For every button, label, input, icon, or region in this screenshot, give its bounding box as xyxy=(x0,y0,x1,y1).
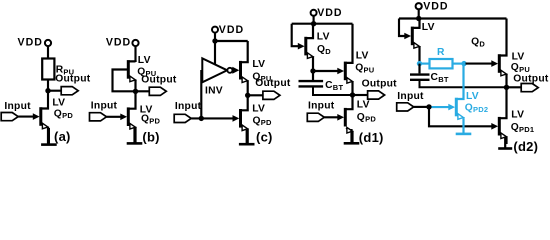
transistor QPD (b) xyxy=(120,91,135,143)
VDD terminal (a) xyxy=(45,40,51,46)
transistor QPD (a) xyxy=(33,107,48,143)
svg-text:(c): (c) xyxy=(256,130,273,145)
svg-text:Input: Input xyxy=(91,100,118,111)
svg-text:VDD: VDD xyxy=(18,37,43,49)
svg-text:Input: Input xyxy=(397,91,424,102)
svg-text:CBT: CBT xyxy=(325,80,343,92)
svg-text:(a): (a) xyxy=(54,129,71,144)
wire input lower run (d2) xyxy=(429,107,494,126)
svg-text:VDD: VDD xyxy=(317,7,342,19)
wire VDD to INV supply (c) xyxy=(214,41,216,65)
svg-text:QPD2: QPD2 xyxy=(465,102,489,114)
input port tag (d2) xyxy=(397,103,414,111)
node output junction (d2) xyxy=(504,85,509,90)
resistor RPU xyxy=(42,59,54,80)
capacitor CBT (d2) xyxy=(410,64,507,88)
wire input to INV (c) xyxy=(200,70,202,118)
svg-text:(d2): (d2) xyxy=(513,139,538,154)
ground (b) xyxy=(133,128,135,143)
output port tag (d2) xyxy=(521,84,538,92)
wire to output tag (d2) xyxy=(507,86,522,88)
wire to output tag (c) xyxy=(248,94,263,96)
node output junction (c) xyxy=(245,93,250,98)
output port tag (a) xyxy=(61,87,78,95)
transistor QPU (d2) xyxy=(491,19,506,88)
node input junction (c) xyxy=(199,116,204,121)
svg-text:LV: LV xyxy=(422,22,435,33)
ground (a) xyxy=(48,128,50,145)
transistor QPD2 (d2) xyxy=(448,64,463,120)
inverter INV (c) xyxy=(202,58,227,82)
resistor R (d2) xyxy=(430,59,453,68)
VDD terminal (b) xyxy=(132,40,138,46)
ground QPD1 (d2) xyxy=(504,138,506,149)
wire junction to QPU gate (d2) xyxy=(466,63,494,65)
input port tag (b) xyxy=(90,113,107,121)
wire input to gate (c) xyxy=(191,117,235,119)
wire node to QPU gate (d1) xyxy=(313,70,340,72)
capacitor CBT (d1) xyxy=(299,71,353,95)
wire input to gate (b) xyxy=(107,116,123,118)
svg-text:Input: Input xyxy=(175,101,202,112)
transistor QD (d1) xyxy=(298,24,313,71)
wire input to gate (a) xyxy=(18,116,35,118)
svg-text:CBT: CBT xyxy=(431,72,449,84)
svg-text:(b): (b) xyxy=(142,130,159,145)
svg-text:INV: INV xyxy=(205,86,223,97)
wire VDD bus (d2) xyxy=(399,17,507,19)
svg-text:(d1): (d1) xyxy=(359,130,384,145)
input port tag (d1) xyxy=(307,113,324,121)
svg-text:Output: Output xyxy=(141,74,177,85)
node VDD junction (c) xyxy=(212,38,217,43)
wire resistor to QPD (a) xyxy=(47,80,49,109)
ground (d1) xyxy=(350,129,352,143)
svg-text:QD: QD xyxy=(471,37,485,49)
svg-text:LV: LV xyxy=(252,103,265,114)
svg-text:LV: LV xyxy=(466,91,479,102)
svg-text:LV: LV xyxy=(357,100,370,111)
svg-text:Output: Output xyxy=(255,78,291,89)
node R junction blue (d2) xyxy=(461,61,466,66)
wire input to gate (d1) xyxy=(324,116,339,118)
output port tag (d1) xyxy=(368,91,385,99)
svg-text:VDD: VDD xyxy=(106,37,131,49)
node output junction (d1) xyxy=(350,92,355,97)
wire gate loop (b) xyxy=(113,70,136,92)
svg-text:VDD: VDD xyxy=(423,0,448,12)
wire to output tag (b) xyxy=(136,90,150,92)
svg-text:LV: LV xyxy=(511,110,524,121)
transistor QD (d2) xyxy=(404,19,419,64)
input port tag (c) xyxy=(174,114,191,122)
output port tag (c) xyxy=(263,91,280,99)
node VDD junction (d1) xyxy=(311,21,316,26)
svg-text:Output: Output xyxy=(362,78,398,89)
wire R to junction (d2) xyxy=(453,63,465,65)
wire to output tag (d1) xyxy=(353,94,368,96)
svg-text:LV: LV xyxy=(317,31,330,42)
wire QD gate loop (d2) xyxy=(399,19,407,37)
svg-text:VDD: VDD xyxy=(219,24,244,36)
wire VDD stub (d1) xyxy=(313,16,315,24)
svg-text:LV: LV xyxy=(252,59,265,70)
ground (c) xyxy=(246,130,248,144)
wire node to R (d2) xyxy=(420,63,430,65)
node output junction (b) xyxy=(133,89,138,94)
node VDD junction (d2) xyxy=(416,16,421,21)
node input junction (d2) xyxy=(426,104,431,109)
svg-text:Output: Output xyxy=(55,74,91,85)
arrow INV to QPU gate (c) xyxy=(232,67,239,74)
node bootstrap (d1) xyxy=(310,68,315,73)
transistor QPU (d1) xyxy=(337,24,352,95)
wire QD gate loop (d1) xyxy=(292,24,300,47)
svg-text:QPD: QPD xyxy=(253,115,273,127)
node bootstrap blue (d2) xyxy=(417,61,422,66)
svg-text:LV: LV xyxy=(356,50,369,61)
output port tag (b) xyxy=(149,87,166,95)
transistor QPD (c) xyxy=(233,95,248,143)
svg-text:Input: Input xyxy=(308,101,335,112)
wire input to QPD2 gate blue (d2) xyxy=(432,106,450,108)
wire VDD to QPU collector (c) xyxy=(215,40,248,42)
svg-text:LV: LV xyxy=(512,52,525,63)
svg-text:QPD: QPD xyxy=(357,112,377,124)
VDD terminal (d2) xyxy=(416,3,422,9)
VDD terminal (c) xyxy=(212,27,218,33)
svg-text:QPU: QPU xyxy=(511,62,530,74)
svg-text:QPD: QPD xyxy=(54,108,74,120)
svg-text:Input: Input xyxy=(4,101,31,112)
svg-text:LV: LV xyxy=(138,55,151,66)
ground QPD2 blue (d2) xyxy=(462,119,464,134)
transistor QPU (c) xyxy=(239,41,248,95)
wire VDD to QPU (b) xyxy=(134,46,136,62)
wire to output tag (a) xyxy=(48,90,62,92)
VDD terminal (d1) xyxy=(311,10,317,16)
node output junction (a) xyxy=(45,88,50,93)
wire VDD down (c) xyxy=(214,33,216,41)
svg-text:QPU: QPU xyxy=(355,63,374,75)
wire VDD stub (d2) xyxy=(418,9,420,18)
transistor QPD (d1) xyxy=(337,95,352,143)
svg-text:R: R xyxy=(437,47,445,58)
svg-text:QD: QD xyxy=(317,44,331,56)
transistor QPU (b) xyxy=(127,60,136,91)
wire input to node (d2) xyxy=(414,106,429,108)
svg-text:QPD1: QPD1 xyxy=(511,122,535,134)
wire VDD bus (d1) xyxy=(292,23,353,25)
svg-text:LV: LV xyxy=(52,97,65,108)
transistor QPD1 (d2) xyxy=(491,87,506,144)
input port tag (a) xyxy=(1,113,18,121)
wire VDD to resistor (a) xyxy=(47,46,49,58)
